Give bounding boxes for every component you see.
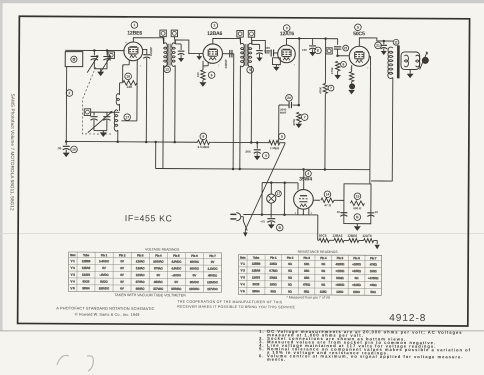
IF transformer T2 secondary [248, 43, 252, 67]
svg-text:4.9VDC: 4.9VDC [171, 266, 181, 270]
svg-text:117VDC: 117VDC [207, 287, 217, 291]
resistor R osc [123, 81, 137, 89]
svg-text:650 Ω: 650 Ω [353, 206, 362, 210]
svg-text:1.1VDC: 1.1VDC [208, 267, 218, 271]
wire: osc top rail [91, 111, 120, 113]
boxed ref 13 [171, 30, 177, 44]
capacitor C plate bypass V3 [302, 46, 321, 56]
svg-text:2: 2 [213, 24, 215, 28]
svg-text:117VAC: 117VAC [153, 287, 163, 291]
svg-text:15Ω: 15Ω [304, 262, 309, 266]
wire: coil to osc [118, 104, 120, 111]
ground below osc caps [100, 132, 107, 137]
svg-text:12AT6: 12AT6 [280, 31, 295, 37]
svg-text:+470KΩ: +470KΩ [368, 276, 378, 280]
capacitor right of T1 [175, 44, 184, 62]
svg-text:50C5: 50C5 [253, 282, 260, 286]
svg-text:22KΩ: 22KΩ [270, 262, 277, 266]
tube V4 50C5 [349, 46, 369, 66]
wire: line bus to heaters [243, 215, 318, 241]
svg-text:15: 15 [356, 194, 360, 198]
schematic border frame [18, 16, 470, 326]
switch link diagonal [245, 143, 285, 230]
svg-text:9: 9 [249, 68, 251, 72]
svg-text:0Ω: 0Ω [288, 262, 292, 266]
osc trimmer C2A [90, 112, 97, 130]
wire: heater string end [374, 241, 378, 244]
power plug P1 [230, 213, 243, 221]
svg-text:MMF: MMF [264, 49, 271, 53]
resistor V2 cathode [196, 70, 215, 80]
svg-text:9: 9 [281, 135, 283, 139]
wire: B+ riser [369, 67, 372, 184]
tube number circle V4 [355, 24, 362, 31]
svg-text:ments.: ments. [267, 357, 286, 362]
svg-text:Pin 2: Pin 2 [287, 256, 294, 260]
svg-text:50C5: 50C5 [83, 279, 90, 283]
ground below speaker [407, 69, 414, 78]
footnotes below frame [259, 329, 471, 363]
tube label 12AT6 [280, 31, 295, 37]
svg-text:5VDC: 5VDC [100, 280, 107, 284]
svg-text:12VAC: 12VAC [136, 266, 145, 270]
svg-text:115Ω: 115Ω [320, 290, 327, 294]
svg-text:150Ω: 150Ω [270, 282, 277, 286]
wire: V5 cathode right [313, 199, 320, 201]
svg-text:0V: 0V [120, 273, 124, 277]
wire: V5 plate stub [303, 169, 305, 189]
circled ref speaker [422, 57, 428, 63]
svg-text:115VDC: 115VDC [99, 286, 109, 290]
wire: padder to AVC bus [145, 58, 148, 143]
svg-text:0Ω: 0Ω [288, 282, 292, 286]
tube V2 pin numbers [204, 63, 220, 68]
left scan edge band [0, 3, 3, 331]
osc trimmer arrow [88, 111, 112, 132]
svg-text:TAKEN WITH VACUUM TUBE VOLTMET: TAKEN WITH VACUUM TUBE VOLTMETER [114, 293, 186, 297]
svg-text:12BE6: 12BE6 [127, 31, 142, 37]
wire: pilot lamp bottom [270, 203, 272, 218]
wire: AVC bus left corner to B- bus [154, 141, 157, 169]
resistor V4 cathode [349, 65, 355, 89]
svg-text:50Ω: 50Ω [370, 290, 375, 294]
svg-text:V 5: V 5 [71, 286, 76, 290]
svg-text:4.9VDC: 4.9VDC [171, 260, 181, 264]
capacitor C padder [143, 47, 153, 58]
tube V5 35W4 [294, 189, 314, 209]
svg-text:35W4: 35W4 [299, 177, 312, 183]
svg-text:Pin 2: Pin 2 [119, 253, 126, 257]
svg-text:7: 7 [330, 86, 332, 90]
wire: V2 cathode pins down [203, 61, 208, 70]
IF transformer T1 secondary [172, 43, 176, 67]
svg-text:Item: Item [70, 253, 76, 257]
switch arrow [243, 230, 247, 237]
svg-text:4912-8: 4912-8 [389, 313, 426, 324]
ground stub at V2 grid [196, 54, 202, 60]
oscillator coil L17 [114, 110, 130, 131]
voltage readings table [68, 252, 221, 292]
svg-text:Pin 1: Pin 1 [101, 253, 108, 257]
wire: B- bus [156, 167, 370, 171]
volume control R9 1 MEG [269, 133, 285, 150]
svg-text:12BE6: 12BE6 [347, 234, 357, 238]
svg-text:100Ω: 100Ω [370, 269, 377, 273]
svg-text:30: 30 [375, 210, 379, 214]
svg-text:35W4: 35W4 [252, 289, 260, 293]
tube V2 12BA6 [203, 44, 223, 64]
svg-text:0V: 0V [120, 266, 124, 270]
svg-text:0Ω: 0Ω [321, 283, 325, 287]
wire: V3 plate down [298, 39, 301, 107]
svg-text:12VAC: 12VAC [136, 273, 145, 277]
ground below 470K [295, 122, 302, 128]
coupling capacitor 2000 MMF [279, 95, 299, 115]
svg-text:MMF: MMF [280, 111, 287, 115]
svg-text:RECEIVER MAKES IT POSSIBLE TO: RECEIVER MAKES IT POSSIBLE TO BRING YOU … [177, 305, 295, 310]
IF transformer T1 core [168, 44, 170, 66]
svg-text:Pin 6: Pin 6 [353, 256, 360, 260]
svg-text:0Ω: 0Ω [321, 269, 325, 273]
wire: V3 plate rail [287, 37, 313, 45]
svg-text:10: 10 [72, 148, 76, 152]
svg-text:4: 4 [265, 154, 267, 158]
svg-text:COMP: COMP [149, 47, 153, 56]
wire: coupling cap to volume control [278, 105, 280, 143]
boxed ref 12 above T2 [237, 30, 243, 44]
svg-text:110Ω: 110Ω [353, 290, 360, 294]
svg-text:0V: 0V [120, 280, 124, 284]
svg-text:V 2: V 2 [241, 268, 246, 272]
heater 12BE6 [344, 238, 359, 242]
svg-text:35Ω: 35Ω [304, 290, 309, 294]
svg-text:21: 21 [376, 44, 380, 48]
gang dashed link [82, 67, 113, 134]
tube label 50C5 [353, 31, 365, 37]
circled ref below T2 [247, 67, 254, 74]
ground below pilot cap [268, 222, 275, 229]
tube number circle V2 [211, 22, 218, 29]
heater string labels [319, 234, 372, 238]
tube label 12BA6 [207, 31, 222, 37]
svg-text:SAMS Photofact Volume 7 MOTOR: SAMS Photofact Volume 7 MOTOROLA 58G11, … [10, 94, 16, 211]
resistor boxed 10 MEG at V3 grid [272, 58, 280, 67]
tube V5 pin numbers [295, 211, 313, 216]
wire: V4 grid entry [336, 54, 349, 57]
svg-text:12BA6: 12BA6 [252, 268, 261, 272]
svg-text:36VAC: 36VAC [154, 280, 163, 284]
svg-text:12AT6: 12AT6 [82, 273, 91, 277]
boxed ref 14 [160, 30, 166, 44]
speaker voice coil arrow [420, 52, 428, 70]
pencil mark bottom left [57, 355, 93, 371]
svg-text:0Ω: 0Ω [288, 269, 292, 273]
svg-text:14: 14 [326, 192, 330, 196]
wire: T2 primary bottom to B- bus [239, 66, 242, 170]
svg-text:47KΩ: 47KΩ [370, 262, 377, 266]
svg-text:Pin 1: Pin 1 [270, 256, 277, 260]
svg-text:470K: 470K [318, 87, 322, 94]
top scan edge band [0, 0, 484, 3]
wire: pilot lamp rail [262, 181, 298, 189]
circled ref below T1 [164, 66, 171, 73]
filter network outline [344, 184, 371, 224]
svg-text:+12KΩ: +12KΩ [352, 283, 361, 287]
boxed ref 18 on antenna rail [108, 52, 114, 59]
svg-text:470K: 470K [292, 119, 296, 126]
svg-text:100: 100 [196, 72, 200, 77]
svg-text:V 1: V 1 [241, 262, 246, 266]
svg-text:.05: .05 [57, 146, 62, 150]
svg-text:10MΩ: 10MΩ [269, 276, 277, 280]
wire: osc cap bottom bus [94, 131, 107, 133]
svg-text:8: 8 [202, 135, 204, 139]
capacitor .005 on AVC bus [245, 143, 269, 159]
svg-text:12AT6: 12AT6 [252, 275, 261, 279]
svg-text:RESISTANCE READINGS: RESISTANCE READINGS [298, 250, 339, 254]
circled ref pilot lamp [275, 191, 281, 197]
svg-text:THE COOPERATION OF THE MANUFAC: THE COOPERATION OF THE MANUFACTURER OF T… [177, 300, 282, 305]
svg-text:22K: 22K [127, 85, 134, 89]
svg-text:6: 6 [343, 62, 345, 66]
speaker secondary coil [404, 55, 408, 67]
svg-text:87VAC: 87VAC [136, 280, 145, 284]
boxed ref 15 oscillator [84, 109, 90, 116]
electrolytic C left section [337, 210, 348, 216]
tube V1 pin numbers [122, 40, 141, 68]
ground below C10 [63, 153, 70, 158]
page bottom edge line [0, 330, 484, 331]
arrow heater return [375, 245, 380, 250]
svg-text:VOLTAGE READINGS: VOLTAGE READINGS [145, 247, 180, 251]
svg-text:90VDC: 90VDC [190, 260, 199, 264]
IF transformer T1 primary [163, 43, 167, 67]
svg-text:V 3: V 3 [71, 273, 76, 277]
svg-text:.005: .005 [245, 150, 251, 154]
wire: osc coil tap [121, 82, 137, 121]
loop antenna LA1 [65, 52, 83, 67]
svg-text:470K: 470K [330, 67, 334, 74]
svg-text:90VDC: 90VDC [190, 280, 199, 284]
svg-text:0V: 0V [120, 287, 124, 291]
capacitor coupling to V4 grid [326, 45, 349, 56]
svg-text:Tube: Tube [253, 256, 260, 260]
resistor 470K V3 load [292, 112, 308, 125]
svg-text:0Ω: 0Ω [288, 289, 292, 293]
wire: osc coil bottom to bus [117, 130, 120, 143]
electrolytic C right section [367, 210, 378, 216]
svg-text:120Ω: 120Ω [336, 290, 343, 294]
svg-text:+15KΩ: +15KΩ [352, 269, 361, 273]
svg-text:V 2: V 2 [71, 266, 76, 270]
circled ref 11 output transformer [393, 39, 399, 45]
svg-text:12BA6: 12BA6 [82, 266, 91, 270]
svg-text:0Ω: 0Ω [355, 276, 359, 280]
heater 12AT6 [359, 238, 374, 242]
svg-text:120VDC: 120VDC [207, 280, 218, 284]
capacitor COMP at V2 screen [222, 50, 233, 69]
resistor B+ decoupling [318, 39, 334, 94]
ground below tuning caps [97, 72, 104, 77]
svg-text:100VAC: 100VAC [153, 259, 163, 263]
svg-text:12BA6: 12BA6 [332, 234, 342, 238]
svg-text:12BE6: 12BE6 [252, 262, 261, 266]
wire: T1 to V2 grid [175, 40, 203, 54]
svg-text:50Ω: 50Ω [271, 289, 276, 293]
tube number circle V1 [131, 22, 138, 29]
tube number circle V5 [305, 171, 311, 177]
svg-text:15Ω: 15Ω [304, 276, 309, 280]
ground below V3 grid resistor [273, 67, 279, 71]
tube V3 pin numbers [278, 63, 296, 67]
svg-text:21: 21 [344, 46, 348, 50]
wire: T2 secondary bottom to AVC bus [250, 66, 252, 143]
svg-text:Pin 5: Pin 5 [173, 254, 180, 258]
tube V1 12BE6 [124, 42, 143, 61]
svg-text:47 Ω: 47 Ω [324, 203, 331, 207]
pilot lamp PL1 [267, 181, 276, 203]
resistor 47 ohm surge [321, 191, 334, 207]
svg-text:12: 12 [165, 68, 169, 72]
svg-text:Pin 5: Pin 5 [337, 256, 344, 260]
wire: 12AT6 B+ feed riser [324, 94, 326, 170]
ground below V4 grid resistor [334, 71, 341, 79]
svg-text:Pin 4: Pin 4 [155, 254, 162, 258]
svg-text:A PHOTOFACT STANDARD NOTATION: A PHOTOFACT STANDARD NOTATION SCHEMATIC [56, 305, 154, 311]
IF transformer T2 primary [240, 43, 244, 67]
svg-text:1.: 1. [259, 329, 264, 334]
tube V4 pin numbers [350, 66, 369, 71]
tube V3 12AT6 [278, 45, 296, 63]
tube number circle V3 [283, 25, 290, 32]
heater 12BA6 [329, 238, 344, 242]
svg-text:16: 16 [126, 75, 130, 79]
capacitor C10 AVC bypass [57, 141, 77, 152]
speaker voice coil [416, 55, 420, 67]
svg-text:0Ω: 0Ω [288, 276, 292, 280]
wire: V4 screen to B+ riser [369, 56, 370, 66]
tuning capacitor C1B [100, 50, 111, 72]
svg-text:V 3: V 3 [241, 275, 246, 279]
svg-text:3: 3 [286, 26, 288, 30]
wire: V2 plate to T2 [213, 38, 241, 44]
ground below V2 cathode resistor [199, 80, 206, 87]
wire: V5 pins to line bus [298, 208, 309, 215]
resistor R16 osc grid [123, 65, 132, 83]
svg-text:0V: 0V [211, 260, 215, 264]
svg-text:V 4: V 4 [241, 282, 246, 286]
resistor 470K grid V4 [330, 61, 346, 74]
svg-text:90VDC: 90VDC [190, 267, 199, 271]
wire: V1 cathode right [143, 49, 147, 54]
svg-text:4.7MΩ: 4.7MΩ [269, 269, 277, 273]
wire: plate rail extension to V4 grid [313, 37, 338, 44]
svg-text:0V: 0V [120, 259, 124, 263]
circled ref filter caps [354, 214, 361, 221]
wire: antenna top rail [65, 49, 124, 52]
heater 50C5 [318, 238, 330, 242]
wire: V1 grid pin stubs [129, 60, 137, 66]
resistor R8 3.3 MEG in AVC bus [197, 133, 210, 149]
svg-text:45VDC: 45VDC [208, 273, 217, 277]
page crease line [0, 232, 484, 235]
oscillator grid coil [116, 94, 119, 105]
svg-text:100: 100 [302, 48, 307, 52]
boxed ref 8 above T2 [248, 31, 254, 45]
resistor filter 650 ohm [350, 193, 364, 210]
output transformer T3 core [397, 45, 400, 78]
svg-text:+15KΩ: +15KΩ [335, 283, 344, 287]
svg-text:5.: 5. [259, 346, 264, 351]
svg-text:Pin 3: Pin 3 [303, 256, 310, 260]
svg-text:10MΩ: 10MΩ [336, 276, 344, 280]
svg-text:40: 40 [337, 210, 341, 214]
wire: AVC bus [65, 140, 270, 144]
svg-text:-.6VDC: -.6VDC [172, 273, 181, 277]
svg-text:12VAC: 12VAC [136, 259, 145, 263]
svg-text:0V: 0V [102, 266, 106, 270]
svg-text:+60Ω: +60Ω [370, 283, 377, 287]
svg-text:Pin 7: Pin 7 [370, 256, 377, 260]
svg-text:Pin 3: Pin 3 [137, 253, 144, 257]
svg-text:+75: +75 [260, 220, 265, 224]
tube label 35W4 [299, 177, 312, 183]
wire: surge resistor to filter [334, 199, 344, 201]
svg-text:Pin 6: Pin 6 [191, 254, 198, 258]
capacitor below pilot lamp [260, 219, 283, 231]
svg-text:12AT6: 12AT6 [362, 234, 372, 238]
svg-text:Pin 4: Pin 4 [320, 256, 327, 260]
svg-text:V 4: V 4 [71, 279, 76, 283]
wire: grid leak down [120, 83, 123, 95]
ground below filter [354, 224, 361, 231]
svg-text:0V: 0V [157, 273, 161, 277]
svg-text:© Howard W. Sams & Co., Inc. 1: © Howard W. Sams & Co., Inc. 1949 [75, 313, 140, 317]
ground below V4 cathode [348, 82, 355, 95]
svg-text:Item: Item [240, 255, 246, 259]
svg-text:1-9VDC: 1-9VDC [99, 259, 109, 263]
svg-text:12BA6: 12BA6 [207, 31, 222, 37]
IF transformer T2 core [245, 44, 247, 66]
circled ref on antenna lead [66, 90, 73, 97]
svg-text:0Ω: 0Ω [322, 262, 326, 266]
svg-text:50C5: 50C5 [353, 31, 365, 37]
wire: pot right end [280, 142, 285, 144]
svg-text:0V: 0V [175, 280, 179, 284]
tube label 12BE6 [127, 31, 142, 37]
svg-text:5: 5 [357, 25, 359, 29]
power switch on volume control [243, 217, 247, 231]
resistance readings table [238, 254, 381, 295]
svg-text:88VAC: 88VAC [136, 287, 145, 291]
wire: V1 plate to T1 [133, 38, 164, 44]
wire: T2 to V3 grid [252, 40, 270, 53]
wire: T1 primary bottom to B- bus [162, 65, 165, 168]
svg-text:COMP: COMP [224, 59, 228, 68]
svg-text:6.: 6. [259, 353, 264, 358]
svg-text:+15KΩ: +15KΩ [352, 262, 361, 266]
capacitor right of T2 [252, 44, 263, 61]
svg-text:0Ω: 0Ω [321, 276, 325, 280]
wire: V1 pin to osc coil top [136, 65, 138, 82]
output transformer T3 primary [388, 47, 393, 78]
osc trimmer C2B [103, 112, 110, 130]
svg-text:4: 4 [307, 172, 309, 176]
svg-text:50C5: 50C5 [319, 234, 327, 238]
capacitor grid V3 100 MMF [264, 46, 278, 57]
svg-text:IF=455 KC: IF=455 KC [125, 213, 173, 223]
wire: V4 plate to output transformer [359, 38, 393, 46]
